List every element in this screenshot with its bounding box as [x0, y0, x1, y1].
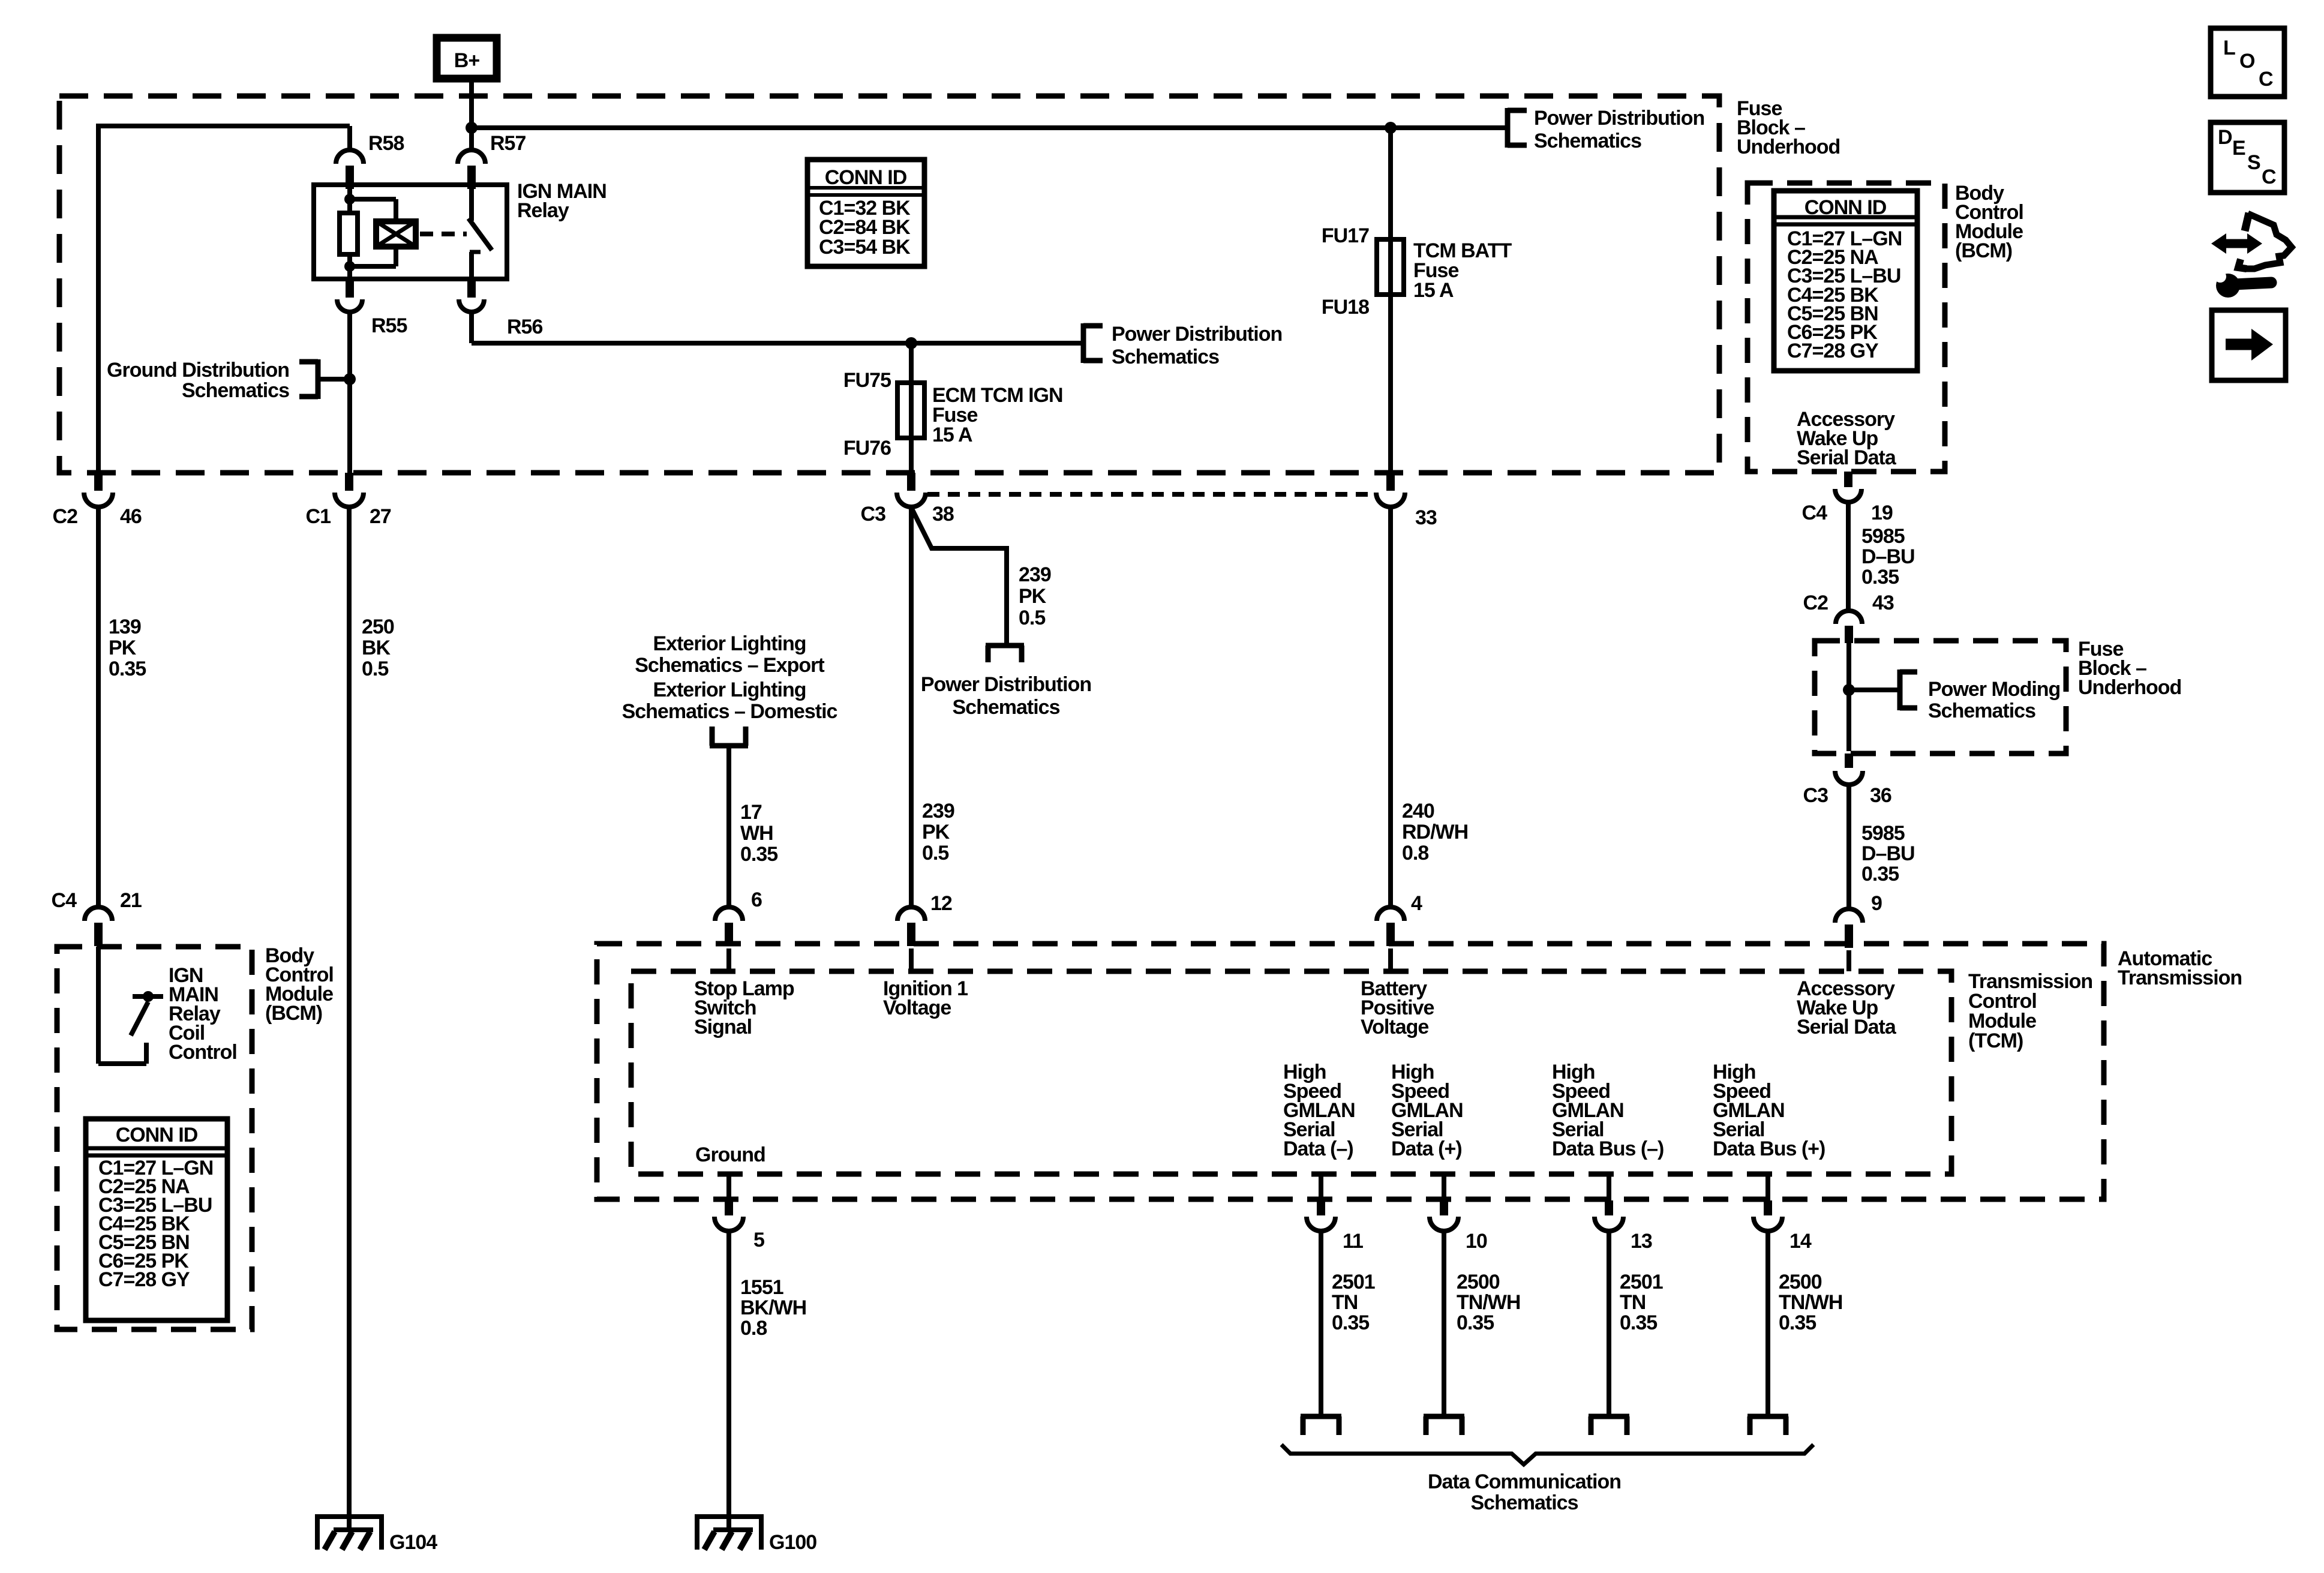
connector C3 pin 36	[1845, 754, 1853, 768]
wire 239 PK to power distribution	[911, 508, 1007, 646]
connector R56	[467, 279, 476, 298]
connector R58	[336, 150, 364, 164]
svg-text:6: 6	[751, 888, 762, 911]
icon DESC box	[2211, 122, 2284, 193]
ground G100	[697, 1514, 761, 1519]
svg-text:Underhood: Underhood	[1737, 136, 1840, 158]
svg-text:19: 19	[1871, 502, 1893, 524]
svg-text:Exterior Lighting: Exterior Lighting	[653, 632, 806, 655]
svg-text:1551: 1551	[740, 1276, 783, 1299]
fuse FU75/FU76 ECM TCM IGN	[897, 383, 924, 438]
svg-text:2500: 2500	[1457, 1271, 1500, 1293]
resistor relay coil resistor	[340, 213, 358, 254]
wire below resistor	[347, 254, 352, 279]
svg-text:27: 27	[370, 505, 391, 528]
wire 2500 TN/WH circuit	[1765, 1231, 1770, 1414]
wire 2501 TN circuit	[1607, 1231, 1611, 1414]
svg-text:S: S	[2247, 151, 2260, 174]
svg-text:38: 38	[932, 503, 954, 526]
CONN ID table (BCM bottom)	[86, 1119, 227, 1320]
svg-text:17: 17	[740, 801, 762, 824]
svg-text:RD/WH: RD/WH	[1402, 821, 1468, 843]
svg-text:2500: 2500	[1779, 1271, 1822, 1293]
svg-text:TN: TN	[1332, 1291, 1358, 1314]
node junction B+/R57/rail	[466, 122, 478, 134]
svg-text:C: C	[2259, 68, 2273, 91]
svg-text:G104: G104	[389, 1531, 437, 1554]
coil (box with X)	[376, 221, 416, 247]
terminator pin 14 wire end	[1747, 1414, 1788, 1419]
wire TCM BATT fuse feed	[1388, 128, 1393, 474]
BCM dashed box top right	[1747, 183, 1945, 472]
svg-text:FU17: FU17	[1322, 224, 1369, 247]
svg-text:C7=28 GY: C7=28 GY	[98, 1268, 190, 1291]
BCM dashed box (Body Control Module)	[57, 947, 252, 1329]
connector C4 pin 19	[1844, 472, 1852, 487]
connector R55	[346, 279, 354, 298]
svg-text:0.5: 0.5	[922, 842, 948, 864]
brace data communication group	[1281, 1445, 1813, 1464]
svg-text:C7=28 GY: C7=28 GY	[1787, 340, 1879, 362]
svg-text:BK/WH: BK/WH	[740, 1296, 806, 1319]
svg-text:R58: R58	[368, 132, 404, 155]
svg-text:33: 33	[1415, 506, 1437, 529]
svg-text:Data Communication: Data Communication	[1428, 1470, 1621, 1493]
wire relay coil control	[96, 947, 101, 1064]
connector pin 12	[897, 907, 925, 921]
wire 2500 TN/WH circuit	[1442, 1231, 1446, 1414]
svg-text:TN/WH: TN/WH	[1457, 1291, 1520, 1314]
icon arrow box	[2212, 310, 2286, 380]
svg-text:BK: BK	[362, 637, 391, 659]
svg-text:36: 36	[1870, 784, 1891, 807]
connector pin 10	[1442, 1174, 1446, 1200]
svg-text:4: 4	[1411, 892, 1422, 915]
svg-text:0.5: 0.5	[362, 658, 388, 680]
svg-text:Voltage: Voltage	[883, 996, 951, 1019]
svg-text:Transmission: Transmission	[2118, 966, 2242, 989]
svg-text:5: 5	[753, 1229, 764, 1251]
svg-text:Underhood: Underhood	[2078, 676, 2181, 699]
svg-text:14: 14	[1789, 1230, 1812, 1253]
svg-text:46: 46	[120, 505, 142, 528]
svg-text:9: 9	[1871, 892, 1882, 915]
svg-text:O: O	[2239, 50, 2255, 73]
svg-text:239: 239	[922, 800, 954, 822]
svg-text:C3: C3	[861, 503, 886, 526]
connector pin 6	[715, 907, 743, 921]
svg-text:0.35: 0.35	[1861, 863, 1899, 885]
svg-text:0.8: 0.8	[740, 1317, 767, 1340]
wire 5985 D-BU lower	[1846, 785, 1851, 909]
svg-text:0.35: 0.35	[1779, 1311, 1816, 1334]
connector C2 pin 46	[94, 473, 103, 491]
svg-text:0.35: 0.35	[109, 658, 146, 680]
connector C3 pin 38	[907, 473, 915, 491]
wire 1551 BK/WH ground circuit	[726, 1231, 731, 1529]
node coil bottom	[344, 261, 355, 272]
svg-text:C3=54 BK: C3=54 BK	[819, 236, 911, 259]
svg-text:G100: G100	[769, 1531, 816, 1554]
svg-text:Serial Data: Serial Data	[1797, 1016, 1897, 1038]
svg-text:Data (+): Data (+)	[1391, 1137, 1462, 1160]
svg-text:240: 240	[1402, 800, 1434, 822]
svg-text:Data Bus (+): Data Bus (+)	[1713, 1137, 1825, 1160]
svg-text:21: 21	[120, 889, 142, 912]
svg-text:0.35: 0.35	[1457, 1311, 1494, 1334]
B+ battery terminal	[437, 38, 497, 79]
svg-text:239: 239	[1019, 563, 1051, 586]
svg-text:Power Distribution: Power Distribution	[1534, 107, 1704, 130]
svg-text:R56: R56	[507, 316, 542, 338]
svg-text:R57: R57	[490, 132, 526, 155]
CONN ID table (BCM top right)	[1774, 191, 1917, 371]
svg-text:15 A: 15 A	[932, 424, 972, 446]
svg-text:FU18: FU18	[1322, 296, 1369, 319]
svg-text:E: E	[2232, 137, 2245, 160]
svg-text:Relay: Relay	[517, 199, 569, 222]
wire 2501 TN circuit	[1319, 1231, 1323, 1414]
svg-text:D–BU: D–BU	[1861, 545, 1915, 568]
svg-text:Signal: Signal	[694, 1016, 752, 1038]
off-page bracket Power Moding Schematics	[1897, 670, 1903, 710]
switch relay contact	[469, 185, 474, 221]
dotted inline connector line	[927, 492, 1375, 497]
svg-text:Power Moding: Power Moding	[1928, 678, 2060, 701]
svg-text:5985: 5985	[1861, 822, 1905, 845]
svg-text:(BCM): (BCM)	[1955, 239, 2012, 262]
fuse block dashed box (power moding)	[1815, 641, 2066, 754]
wire to power moding bracket	[1849, 688, 1900, 692]
svg-text:TN/WH: TN/WH	[1779, 1291, 1842, 1314]
off-page bracket Power Distribution Schematics (middle)	[1081, 323, 1086, 363]
svg-text:11: 11	[1343, 1230, 1363, 1253]
connector C1 pin 27	[345, 473, 353, 491]
node fuse FU75 tap	[905, 337, 917, 349]
svg-text:139: 139	[109, 616, 141, 638]
svg-text:(BCM): (BCM)	[265, 1002, 322, 1025]
wire 17 WH circuit	[726, 746, 731, 907]
svg-text:0.5: 0.5	[1019, 607, 1045, 629]
svg-text:R55: R55	[371, 314, 407, 337]
wire fuse FU75 feed	[909, 343, 914, 474]
svg-text:(TCM): (TCM)	[1968, 1029, 2023, 1052]
svg-text:Schematics: Schematics	[182, 379, 289, 402]
svg-text:FU76: FU76	[843, 437, 891, 460]
junction TCM BATT fuse feed	[1385, 122, 1397, 134]
wire coil link top	[350, 197, 396, 202]
svg-text:Schematics: Schematics	[1534, 130, 1641, 152]
icon vehicle/wrench	[2211, 213, 2292, 298]
fuse FU17/FU18 TCM BATT	[1377, 239, 1404, 295]
connector pin 11	[1319, 1174, 1323, 1200]
connector pin 13	[1607, 1174, 1611, 1200]
svg-text:Power Distribution: Power Distribution	[1112, 323, 1282, 346]
svg-text:Exterior Lighting: Exterior Lighting	[653, 679, 806, 701]
svg-text:PK: PK	[1019, 585, 1047, 608]
svg-text:12: 12	[930, 892, 952, 915]
svg-text:CONN ID: CONN ID	[1804, 196, 1887, 219]
svg-text:C: C	[2262, 166, 2276, 188]
wire R55 down	[347, 312, 352, 474]
connector C4 pin 21	[85, 907, 112, 921]
TCM dashed box	[631, 971, 1951, 1174]
node power moding tap	[1843, 684, 1855, 696]
wire R56 down and right	[469, 312, 474, 343]
svg-text:Data (–): Data (–)	[1283, 1137, 1353, 1160]
wire through power moding box	[1846, 643, 1851, 751]
connector pin 33	[1386, 473, 1395, 491]
ground G104	[317, 1514, 382, 1519]
wire 250 BK circuit	[347, 507, 352, 1529]
svg-text:C4: C4	[1802, 502, 1828, 524]
off-page bracket exterior lighting	[710, 743, 748, 749]
svg-text:C1: C1	[306, 505, 331, 528]
svg-text:0.35: 0.35	[740, 843, 777, 866]
wire R58 drop	[347, 126, 352, 150]
svg-text:13: 13	[1631, 1230, 1652, 1253]
CONN ID table (fuse block)	[807, 160, 924, 266]
svg-text:Control: Control	[169, 1041, 237, 1064]
svg-text:Schematics: Schematics	[953, 696, 1060, 719]
svg-text:10: 10	[1466, 1230, 1487, 1253]
wire coil link bottom	[394, 247, 398, 266]
svg-text:43: 43	[1872, 592, 1894, 614]
svg-text:Schematics: Schematics	[1928, 700, 2035, 722]
wire B+ down to junction	[469, 79, 474, 152]
dashed actuator link	[420, 232, 467, 236]
svg-text:D: D	[2218, 126, 2232, 149]
svg-text:0.8: 0.8	[1402, 842, 1428, 864]
svg-text:Power Distribution: Power Distribution	[921, 673, 1091, 696]
svg-text:TN: TN	[1620, 1291, 1646, 1314]
svg-text:C4: C4	[52, 889, 77, 912]
svg-text:C3: C3	[1803, 784, 1828, 807]
svg-text:D–BU: D–BU	[1861, 842, 1915, 865]
svg-text:FU75: FU75	[843, 369, 891, 392]
icon LOC box	[2211, 28, 2284, 97]
svg-text:250: 250	[362, 616, 394, 638]
terminator pin 13 wire end	[1589, 1414, 1629, 1419]
connector pin 5	[726, 1174, 731, 1200]
node ground distribution tap	[344, 373, 356, 385]
connector pin 14	[1765, 1174, 1770, 1200]
switch relay coil driver	[131, 1002, 148, 1035]
off-page bracket Power Distribution Schematics (top right)	[1505, 108, 1511, 148]
svg-text:C2: C2	[1803, 592, 1828, 614]
svg-text:PK: PK	[109, 637, 137, 659]
svg-text:0.35: 0.35	[1861, 566, 1899, 589]
svg-text:0.35: 0.35	[1620, 1311, 1657, 1334]
terminator pin 11 wire end	[1301, 1414, 1341, 1419]
wire 5985 D-BU upper	[1846, 502, 1851, 611]
wire relay coil left leg	[347, 185, 352, 213]
relay box IGN MAIN Relay	[314, 185, 507, 279]
automatic transmission dashed box	[597, 944, 2104, 1199]
svg-text:15 A: 15 A	[1413, 279, 1454, 302]
connector R57	[458, 150, 485, 164]
off-page bracket Ground Distribution Schematics	[316, 359, 321, 399]
svg-text:2501: 2501	[1332, 1271, 1375, 1293]
svg-text:2501: 2501	[1620, 1271, 1663, 1293]
svg-text:Schematics: Schematics	[1112, 346, 1219, 368]
svg-text:Voltage: Voltage	[1361, 1016, 1428, 1038]
off-page bracket power distribution (terminator)	[986, 643, 1024, 649]
svg-text:CONN ID: CONN ID	[116, 1124, 198, 1146]
svg-text:L: L	[2223, 37, 2235, 59]
svg-text:Schematics – Export: Schematics – Export	[635, 654, 824, 677]
terminator pin 10 wire end	[1424, 1414, 1464, 1419]
svg-text:CONN ID: CONN ID	[825, 166, 907, 189]
wire 239 PK ignition circuit	[909, 507, 914, 907]
wire bracket to main	[320, 377, 350, 382]
fuse block underhood dashed box	[59, 96, 1719, 473]
svg-text:Ground Distribution: Ground Distribution	[107, 359, 289, 382]
wire 240 RD/WH circuit	[1388, 507, 1393, 907]
svg-text:5985: 5985	[1861, 525, 1905, 548]
svg-text:Data Bus (–): Data Bus (–)	[1552, 1137, 1664, 1160]
svg-text:Schematics: Schematics	[1471, 1491, 1578, 1514]
svg-text:PK: PK	[922, 821, 950, 843]
wire 139 PK circuit	[96, 507, 101, 907]
svg-text:Ground: Ground	[695, 1143, 765, 1166]
svg-text:0.35: 0.35	[1332, 1311, 1369, 1334]
svg-text:WH: WH	[740, 822, 773, 845]
connector pin 4	[1377, 907, 1404, 921]
wire left branch rail	[98, 124, 350, 128]
svg-text:Serial Data: Serial Data	[1797, 446, 1897, 469]
svg-text:Schematics – Domestic: Schematics – Domestic	[622, 700, 837, 723]
wire top rail to Power Distribution Schematics	[472, 125, 1508, 130]
svg-text:C2: C2	[53, 505, 78, 528]
node coil top	[344, 194, 355, 205]
svg-text:B+: B+	[454, 49, 480, 72]
